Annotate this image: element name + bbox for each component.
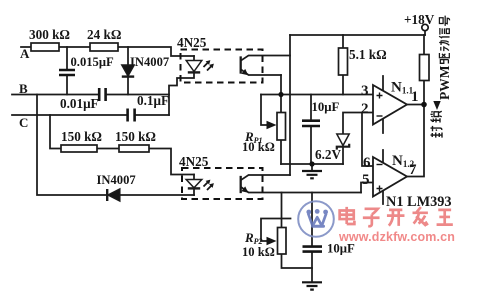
svg-text:6.2V: 6.2V xyxy=(315,147,341,162)
svg-text:IN4007: IN4007 xyxy=(130,55,169,69)
svg-text:IN4007: IN4007 xyxy=(97,173,136,187)
svg-text:4N25: 4N25 xyxy=(179,154,209,169)
svg-text:RP2: RP2 xyxy=(244,230,263,246)
svg-text:6: 6 xyxy=(363,155,371,171)
svg-text:2: 2 xyxy=(361,101,369,117)
svg-text:10μF: 10μF xyxy=(312,100,340,114)
svg-text:RP1: RP1 xyxy=(244,129,263,145)
svg-text:24 kΩ: 24 kΩ xyxy=(87,27,121,42)
svg-text:150 kΩ: 150 kΩ xyxy=(61,129,102,144)
svg-text:5: 5 xyxy=(362,172,370,188)
svg-text:www.dzkfw.com.cn: www.dzkfw.com.cn xyxy=(338,230,455,244)
svg-text:N1.2: N1.2 xyxy=(392,153,415,169)
svg-text:150 kΩ: 150 kΩ xyxy=(115,129,156,144)
svg-text:300 kΩ: 300 kΩ xyxy=(29,27,70,42)
svg-text:10 kΩ: 10 kΩ xyxy=(242,245,275,259)
svg-text:B: B xyxy=(19,81,28,96)
svg-text:4N25: 4N25 xyxy=(177,35,207,50)
svg-text:N1.1: N1.1 xyxy=(391,80,414,96)
svg-text:0.015μF: 0.015μF xyxy=(71,55,114,69)
svg-text:C: C xyxy=(19,115,28,130)
svg-text:+18V: +18V xyxy=(404,12,435,27)
svg-text:A: A xyxy=(20,46,30,61)
svg-text:PWM: PWM xyxy=(437,65,452,100)
svg-text:5.1 kΩ: 5.1 kΩ xyxy=(349,47,387,62)
svg-text:0.01μF: 0.01μF xyxy=(60,96,99,111)
svg-text:0.1μF: 0.1μF xyxy=(137,93,169,108)
svg-text:3: 3 xyxy=(361,83,369,99)
